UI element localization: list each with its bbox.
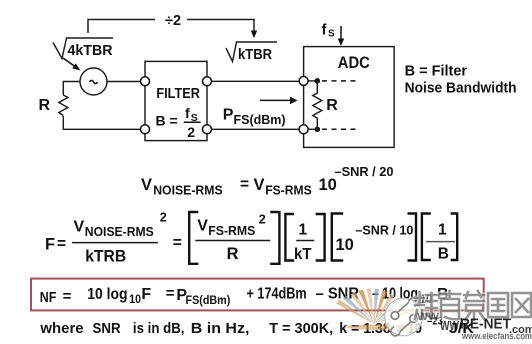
bracket 2 close <box>316 214 325 261</box>
svg-text:f: f <box>322 21 328 38</box>
wire dashed top inside ADC <box>322 80 357 82</box>
svg-text:2: 2 <box>160 211 167 225</box>
ADC box <box>304 47 395 148</box>
svg-text:4kTBR: 4kTBR <box>68 42 113 59</box>
svg-text:2: 2 <box>259 213 266 227</box>
svg-text:NF: NF <box>40 289 57 306</box>
fraction Vfs-rms^2 / R <box>195 213 270 264</box>
bracket 3 open <box>422 214 431 261</box>
svg-text:F: F <box>45 236 55 254</box>
wire resistor bottom to FILTER input <box>63 116 141 129</box>
bracket 3 close <box>451 214 458 261</box>
svg-text:F: F <box>141 286 151 303</box>
svg-text:ADC: ADC <box>338 53 370 72</box>
svg-text:T = 300K,: T = 300K, <box>269 321 333 337</box>
watermark fan logo <box>336 289 418 331</box>
svg-text:=: = <box>173 235 182 252</box>
node terminal FILTER out top <box>203 77 212 86</box>
svg-text:1: 1 <box>438 222 447 239</box>
wire ADC input bottom node <box>308 128 318 130</box>
svg-text:R: R <box>326 97 338 114</box>
svg-text:where: where <box>39 321 83 337</box>
svg-text:V: V <box>254 176 265 194</box>
equation 1: Vnoise-rms = Vfs-rms 10^-SNR/20 <box>141 165 394 198</box>
svg-text:kT: kT <box>294 246 312 263</box>
arrow fs into ADC <box>338 26 344 46</box>
junction dot bottom <box>315 127 321 133</box>
svg-text:Noise Bandwidth: Noise Bandwidth <box>405 80 517 96</box>
svg-text:f: f <box>185 105 190 121</box>
node terminal ADC in bottom <box>299 125 308 134</box>
svg-text:FS(dBm): FS(dBm) <box>234 113 286 127</box>
svg-text:B in Hz,: B in Hz, <box>191 321 250 337</box>
svg-text:V: V <box>197 218 208 235</box>
wire noise source left to resistor R <box>63 82 80 96</box>
FILTER box <box>145 61 207 140</box>
svg-text:+ 174dBm: + 174dBm <box>247 286 307 303</box>
svg-text:2: 2 <box>187 124 195 140</box>
svg-text:WW: WW <box>440 318 460 333</box>
node terminal FILTER in bottom <box>141 125 150 134</box>
svg-text:kTBR: kTBR <box>238 46 272 63</box>
svg-text:–SNR / 20: –SNR / 20 <box>335 165 394 179</box>
label B = fs/2 <box>156 105 201 140</box>
wire divide-by-2 bracket <box>88 20 254 34</box>
watermark hanzi characters <box>415 291 531 320</box>
svg-text:R: R <box>39 97 51 114</box>
bracket 1 open <box>189 212 198 264</box>
term 10^-SNR/10 <box>336 223 414 254</box>
svg-text:B =: B = <box>156 113 178 129</box>
wire dashed bottom inside ADC <box>322 128 357 130</box>
wire FILTER to ADC bottom <box>211 128 299 130</box>
where clause <box>39 316 474 338</box>
svg-text:is in dB,: is in dB, <box>133 321 185 337</box>
svg-text:RE-NET: RE-NET <box>460 316 511 333</box>
svg-text:=: = <box>240 176 249 193</box>
svg-text:R: R <box>227 245 239 263</box>
svg-text:FS-RMS: FS-RMS <box>208 224 255 238</box>
svg-text:NOISE-RMS: NOISE-RMS <box>85 225 154 239</box>
noise source V1 <box>80 68 107 95</box>
svg-text:NOISE-RMS: NOISE-RMS <box>153 184 223 198</box>
svg-text:S: S <box>328 28 335 39</box>
resistor R1 <box>59 95 68 116</box>
svg-text:P: P <box>223 107 234 124</box>
svg-text:10: 10 <box>129 292 141 306</box>
svg-text:FILTER: FILTER <box>156 86 200 102</box>
wire ADC input top node <box>308 80 318 82</box>
resistor R2 inside ADC <box>313 81 322 129</box>
bracket 1 close <box>270 212 279 264</box>
watermark circle logo <box>384 298 423 337</box>
node terminal FILTER in top <box>141 77 150 86</box>
svg-text:10: 10 <box>336 236 354 254</box>
svg-text:–SNR / 10: –SNR / 10 <box>355 223 413 237</box>
red highlight box <box>31 279 484 311</box>
bracket 10-term close <box>408 214 417 261</box>
svg-text:=: = <box>57 236 66 253</box>
svg-text:B = Filter: B = Filter <box>405 63 468 79</box>
svg-text:FS-RMS: FS-RMS <box>265 184 312 198</box>
arrow from sqrt(4kTBR) to noise source <box>63 58 81 71</box>
svg-text:V: V <box>141 176 152 194</box>
arrowhead of divide-by-2 <box>251 31 257 39</box>
svg-text:SNR: SNR <box>93 321 122 337</box>
label f_s <box>322 21 336 39</box>
svg-text:=: = <box>63 288 72 305</box>
junction dot top <box>315 78 321 84</box>
svg-text:B: B <box>438 245 449 262</box>
svg-text:www.elecfans.com: www.elecfans.com <box>461 331 532 341</box>
svg-text:=: = <box>166 285 175 302</box>
fraction 1/kT <box>294 222 314 263</box>
svg-text:WW: WW <box>417 311 440 323</box>
wire noise source to FILTER top input <box>107 81 141 83</box>
label B = Filter Noise Bandwidth <box>405 63 517 96</box>
fraction 1/B <box>426 222 455 263</box>
equation NF <box>40 285 449 307</box>
wire FILTER to ADC top <box>211 80 299 82</box>
equation 2: F = fraction <box>45 211 182 266</box>
bracket 10-term open <box>332 214 343 261</box>
svg-text:FS(dBm): FS(dBm) <box>186 293 231 307</box>
arrow signal direction into ADC <box>260 97 298 105</box>
node terminal FILTER out bottom <box>203 125 212 134</box>
svg-text:kTRB: kTRB <box>85 247 126 265</box>
bracket 2 open <box>285 214 294 261</box>
svg-text:V: V <box>74 219 85 236</box>
label sqrt(4kTBR) <box>53 38 113 59</box>
svg-text:1: 1 <box>299 222 308 239</box>
label sqrt(kTBR) <box>226 42 277 63</box>
node terminal ADC in top <box>299 76 308 85</box>
svg-text:÷2: ÷2 <box>165 13 181 29</box>
label P_FS(dBm) <box>223 107 286 127</box>
svg-text:10 log: 10 log <box>87 286 127 303</box>
